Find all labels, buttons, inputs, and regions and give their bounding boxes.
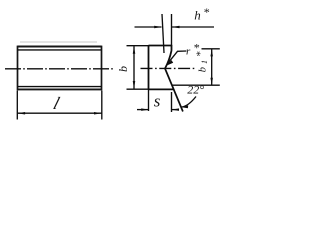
leader r*	[167, 51, 186, 64]
dimension l: extension lines	[17, 91, 102, 120]
profile left face	[148, 46, 150, 90]
centerline left view	[5, 68, 114, 70]
svg-text:s: s	[154, 92, 161, 111]
profile top edge	[149, 45, 172, 47]
dimension b1*: arrowheads	[210, 49, 213, 56]
dimension s: left arrow	[137, 109, 148, 111]
profile radius flank to edge vertex	[165, 51, 172, 69]
svg-text:r: r	[186, 46, 191, 58]
dimension l: arrowheads	[17, 112, 25, 115]
dimension b: line	[133, 46, 135, 88]
svg-text:22°: 22°	[187, 83, 204, 97]
dimension b: extension lines	[127, 46, 149, 89]
svg-text:h: h	[194, 8, 201, 23]
profile right face	[171, 45, 173, 51]
dimension s: right arrow	[172, 109, 178, 111]
bar chamfer line bottom	[18, 86, 102, 88]
centerline right view	[141, 67, 197, 69]
dimension l: line	[17, 112, 102, 114]
dimension b1*: top extension	[202, 48, 220, 50]
svg-text:b: b	[116, 66, 130, 72]
profile bottom edge	[149, 88, 174, 90]
angle leader arc	[182, 97, 197, 108]
ghost scan line	[20, 41, 97, 43]
dimension h*: left arrow	[135, 26, 162, 28]
bar chamfer line top	[18, 49, 102, 51]
svg-text:*: *	[204, 5, 210, 19]
dimension s: extension lines	[149, 89, 172, 112]
dimension h*: right arrow	[172, 26, 214, 28]
dimension b1*: line	[211, 49, 213, 84]
profile bevel 22deg extended	[165, 69, 183, 112]
dimension h*: extension lines	[162, 14, 172, 53]
dimension b: arrowheads	[133, 46, 136, 54]
bar outline	[18, 46, 102, 91]
dimension b1*: bottom extension / angle reference line	[172, 84, 220, 86]
